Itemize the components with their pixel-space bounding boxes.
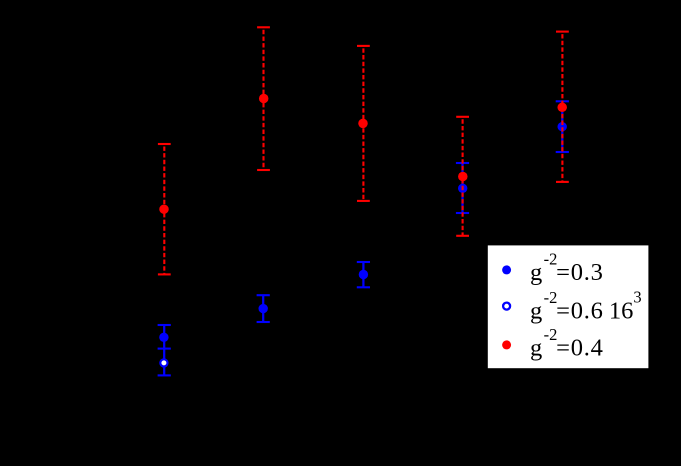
errorbar S2 red point 3 — [357, 46, 370, 201]
errorbar S2 red point 1 — [158, 144, 171, 274]
svg-text:=0.4: =0.4 — [556, 334, 604, 361]
errorbar S0 blue point 1 — [158, 325, 171, 375]
svg-text:g: g — [530, 259, 542, 286]
errorbar S2 red point 2 — [257, 27, 270, 170]
errorbar S0 blue point 3 — [357, 262, 370, 287]
legend marker blue filled — [502, 265, 511, 274]
legend marker red filled — [502, 340, 511, 349]
svg-text:g: g — [530, 298, 542, 325]
legend frame — [488, 245, 649, 368]
errorbar S2 red point 5 — [556, 32, 569, 182]
svg-text:16: 16 — [609, 298, 634, 325]
svg-text:3: 3 — [633, 287, 641, 306]
legend label g^-2=0.3 — [530, 249, 604, 286]
errorbar S0 blue point 2 — [257, 295, 270, 322]
errorbar S1 blue open point 1 — [160, 359, 167, 366]
svg-text:=0.6: =0.6 — [556, 298, 604, 325]
errorbar S2 red point 4 — [456, 117, 469, 236]
legend label g^-2=0.4 — [530, 325, 604, 362]
errorbar S0 blue point 5 — [556, 101, 569, 152]
legend label g^-2=0.6 16^3 — [530, 287, 642, 324]
svg-text:g: g — [530, 334, 542, 361]
errorbar S0 blue point 4 — [456, 163, 469, 213]
legend marker blue open — [503, 303, 510, 310]
svg-text:=0.3: =0.3 — [556, 259, 604, 286]
